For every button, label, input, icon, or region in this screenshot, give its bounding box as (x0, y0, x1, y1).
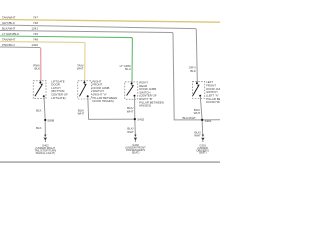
terminal dot top right rear (131, 83, 133, 85)
svg-text:BLK: BLK (35, 67, 41, 71)
wire BLK/WHT row3 ground bus (0, 31, 220, 120)
svg-text:BLK/WHT: BLK/WHT (2, 26, 16, 30)
svg-text:SEAT): SEAT) (132, 150, 140, 154)
terminal stub right front (83, 81, 85, 83)
svg-text:BLK: BLK (190, 69, 196, 73)
terminal stub right rear (131, 82, 133, 84)
svg-text:TAN/WHT: TAN/WHT (2, 37, 16, 41)
splice S402 (134, 118, 136, 120)
svg-text:WHT: WHT (194, 134, 201, 138)
svg-text:LT GRN/BLK: LT GRN/BLK (2, 32, 19, 36)
liftgate door latch switch box (33, 81, 46, 99)
svg-text:DOOR HINGE: DOOR HINGE (206, 100, 220, 104)
svg-text:WHT: WHT (194, 111, 201, 115)
svg-text:HINGES): HINGES) (139, 104, 151, 108)
terminal dot top left front (196, 82, 198, 84)
terminal dot bottom liftgate (43, 95, 45, 97)
svg-text:WHT: WHT (127, 130, 134, 134)
right front door jamb switch box (78, 81, 92, 99)
ground G301 (202, 135, 204, 137)
blade arrowhead liftgate (41, 84, 43, 86)
ground G302 (134, 135, 136, 137)
svg-text:GRY/BLK: GRY/BLK (2, 21, 15, 25)
svg-text:BLK: BLK (36, 126, 42, 130)
svg-text:S402: S402 (137, 118, 144, 122)
terminal dot top liftgate (39, 82, 41, 84)
svg-text:SEAT): SEAT) (199, 151, 207, 155)
right rear door jamb switch box (125, 82, 138, 99)
ground G402 (44, 135, 46, 137)
svg-text:BLK/WHT: BLK/WHT (183, 116, 197, 120)
splice S808 (44, 119, 46, 121)
svg-text:TAN/WHT: TAN/WHT (2, 15, 16, 19)
terminal stub left front (196, 82, 198, 84)
blade arrowhead right rear (131, 85, 134, 87)
terminal dot bottom left front (199, 95, 201, 97)
svg-text:1320: 1320 (31, 43, 38, 47)
svg-text:BLU: BLU (125, 67, 131, 71)
splice S301 (201, 119, 203, 121)
terminal dot bottom right rear (134, 95, 136, 97)
svg-text:DOOR HINGES): DOOR HINGES) (93, 99, 114, 103)
svg-text:WHT: WHT (127, 109, 134, 113)
wire TAN/WHT row5 to right front door jamb switch (0, 42, 85, 81)
svg-text:WHT: WHT (77, 67, 84, 71)
svg-text:746: 746 (33, 32, 38, 36)
switch blade left front (193, 86, 198, 95)
blade arrowhead left front (197, 85, 200, 87)
svg-text:LIFTGATE): LIFTGATE) (51, 96, 65, 100)
svg-text:S808: S808 (47, 118, 54, 122)
svg-text:PNK/BLU: PNK/BLU (2, 43, 15, 47)
switch blade right front (80, 86, 86, 97)
blade arrowhead right front (84, 84, 87, 86)
svg-text:748: 748 (33, 37, 38, 41)
wire LT GRN/BLU row4 to right rear door jamb switch (0, 36, 132, 82)
wire BLK/WHT left front ground (200, 96, 203, 136)
wire BLK/WHT right front ground branch (88, 97, 135, 120)
left front door jamb switch box (192, 82, 204, 99)
svg-text:1241: 1241 (31, 26, 38, 30)
wire PNK/BLK row6 to liftgate door latch (0, 46, 40, 49)
wire BLK liftgate ground (44, 97, 45, 137)
wire BLK/WHT right rear ground (134, 96, 137, 137)
switch blade right rear (127, 87, 133, 96)
svg-text:BLK: BLK (36, 109, 42, 113)
svg-text:747: 747 (33, 15, 38, 19)
switch blade liftgate (35, 86, 42, 97)
wire GRY/BLK row2 to left front door jamb switch (0, 25, 197, 82)
wire PNK/BLK vertical drop (39, 48, 42, 81)
terminal dot top right front (83, 82, 85, 84)
svg-text:WHT: WHT (78, 112, 85, 116)
terminal stub liftgate (40, 81, 42, 83)
svg-text:SIGNAL LIGHT): SIGNAL LIGHT) (36, 151, 55, 155)
wire TAN/WHT bus row1 (0, 20, 220, 23)
bottom border line (0, 161, 220, 163)
svg-text:S301: S301 (205, 119, 212, 123)
svg-text:748: 748 (33, 21, 38, 25)
terminal dot bottom right front (87, 95, 89, 97)
